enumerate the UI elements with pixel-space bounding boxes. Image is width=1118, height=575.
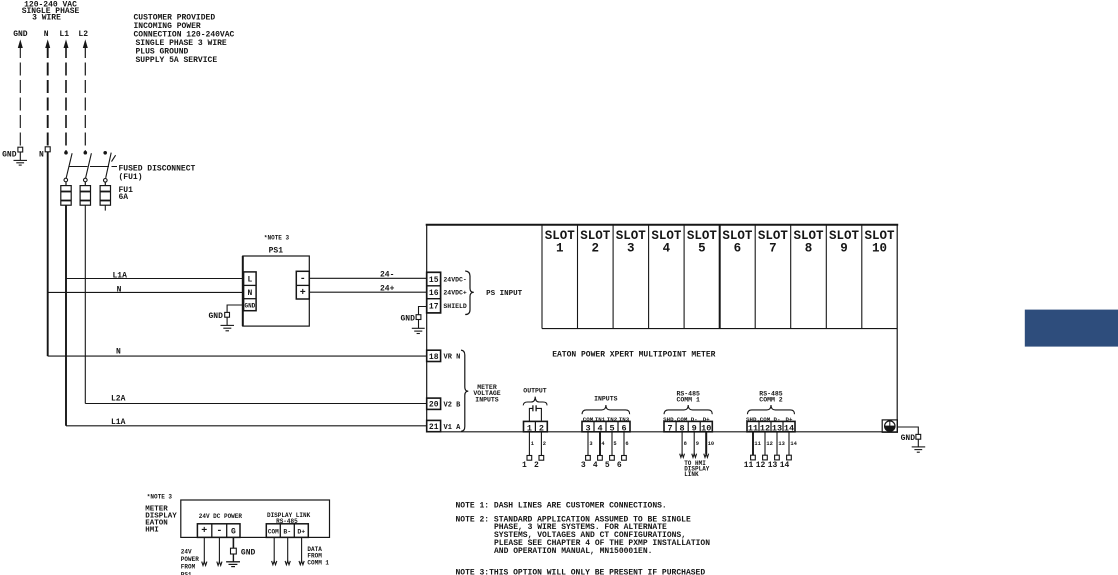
svg-text:7: 7 xyxy=(668,423,673,433)
svg-text:1: 1 xyxy=(556,242,564,256)
svg-text:NOTE 3:THIS OPTION WILL ONLY B: NOTE 3:THIS OPTION WILL ONLY BE PRESENT … xyxy=(456,569,706,575)
svg-text:PS1: PS1 xyxy=(181,571,192,575)
svg-text:3: 3 xyxy=(627,242,635,256)
svg-text:+: + xyxy=(201,526,207,537)
svg-text:3: 3 xyxy=(581,461,586,470)
svg-text:GND: GND xyxy=(13,30,28,39)
svg-text:+: + xyxy=(300,288,306,299)
svg-text:7: 7 xyxy=(769,242,777,256)
svg-text:COM: COM xyxy=(268,528,279,535)
svg-text:L: L xyxy=(247,275,252,284)
svg-text:6: 6 xyxy=(617,461,622,470)
svg-text:L2A: L2A xyxy=(111,395,126,404)
svg-text:INPUTS: INPUTS xyxy=(475,396,499,403)
svg-text:16: 16 xyxy=(429,289,439,298)
svg-text:13: 13 xyxy=(768,461,778,470)
svg-text:PS INPUT: PS INPUT xyxy=(486,290,523,298)
svg-text:L2: L2 xyxy=(78,30,88,39)
svg-text:12: 12 xyxy=(766,441,772,447)
svg-text:11: 11 xyxy=(754,441,760,447)
svg-text:N: N xyxy=(39,151,44,160)
svg-text:GND: GND xyxy=(400,314,415,323)
svg-text:GND: GND xyxy=(2,151,17,160)
svg-text:18: 18 xyxy=(429,353,439,362)
svg-text:1: 1 xyxy=(522,461,527,470)
svg-text:24VDC+: 24VDC+ xyxy=(443,290,467,297)
svg-text:NOTE 1: DASH LINES ARE CUSTOME: NOTE 1: DASH LINES ARE CUSTOMER CONNECTI… xyxy=(456,501,667,510)
svg-text:L1A: L1A xyxy=(111,418,126,427)
svg-text:N: N xyxy=(116,347,121,356)
svg-text:SUPPLY 5A SERVICE: SUPPLY 5A SERVICE xyxy=(136,56,218,65)
svg-text:B-: B- xyxy=(283,529,291,536)
svg-text:-: - xyxy=(216,526,222,537)
svg-text:GND: GND xyxy=(208,312,223,321)
svg-text:24V DC POWER: 24V DC POWER xyxy=(199,513,243,520)
svg-text:5: 5 xyxy=(605,461,610,470)
svg-text:24V: 24V xyxy=(181,549,192,556)
svg-text:(FU1): (FU1) xyxy=(119,173,143,182)
svg-text:N: N xyxy=(117,286,122,295)
svg-text:N: N xyxy=(247,289,252,298)
svg-text:24-: 24- xyxy=(380,270,394,279)
svg-text:9: 9 xyxy=(696,441,699,447)
svg-text:14: 14 xyxy=(790,441,797,447)
svg-text:8: 8 xyxy=(805,242,813,256)
svg-text:V2 B: V2 B xyxy=(444,402,462,410)
svg-text:6: 6 xyxy=(625,441,628,447)
svg-text:*NOTE 3: *NOTE 3 xyxy=(264,234,290,241)
svg-text:14: 14 xyxy=(780,461,790,470)
svg-text:9: 9 xyxy=(840,242,848,256)
svg-text:*NOTE 3: *NOTE 3 xyxy=(147,494,173,501)
svg-text:10: 10 xyxy=(872,242,887,256)
svg-text:15: 15 xyxy=(429,276,439,285)
svg-text:OUTPUT: OUTPUT xyxy=(523,387,547,394)
svg-text:6: 6 xyxy=(734,242,742,256)
svg-text:AND OPERATION MANUAL, MN150001: AND OPERATION MANUAL, MN150001EN. xyxy=(494,547,652,556)
svg-text:2: 2 xyxy=(534,461,539,470)
svg-text:2: 2 xyxy=(592,242,600,256)
svg-text:D+: D+ xyxy=(297,529,305,536)
svg-text:COMM 2: COMM 2 xyxy=(759,396,783,403)
svg-text:12: 12 xyxy=(756,461,766,470)
svg-text:17: 17 xyxy=(429,303,439,312)
svg-text:GND: GND xyxy=(901,434,916,443)
svg-text:11: 11 xyxy=(744,461,754,470)
svg-text:4: 4 xyxy=(663,242,671,256)
svg-text:L1: L1 xyxy=(59,30,69,39)
svg-text:3 WIRE: 3 WIRE xyxy=(32,13,61,22)
svg-text:N: N xyxy=(44,30,49,39)
svg-text:6A: 6A xyxy=(119,193,129,202)
svg-text:21: 21 xyxy=(429,423,439,432)
svg-text:3: 3 xyxy=(589,441,592,447)
svg-text:PS1: PS1 xyxy=(269,247,284,256)
svg-text:HMI: HMI xyxy=(145,526,159,534)
svg-text:COMM 1: COMM 1 xyxy=(676,396,700,403)
svg-text:1: 1 xyxy=(531,441,534,447)
svg-text:LINK: LINK xyxy=(684,471,699,478)
svg-text:COMM 1: COMM 1 xyxy=(307,559,329,566)
svg-text:8: 8 xyxy=(684,441,687,447)
svg-text:24+: 24+ xyxy=(380,284,395,293)
svg-text:EATON POWER XPERT MULTIPOINT M: EATON POWER XPERT MULTIPOINT METER xyxy=(552,350,715,359)
svg-text:20: 20 xyxy=(429,401,439,410)
svg-text:5: 5 xyxy=(613,441,616,447)
svg-text:G: G xyxy=(231,528,236,537)
svg-text:FROM: FROM xyxy=(181,564,196,571)
svg-text:V1 A: V1 A xyxy=(444,424,462,432)
svg-text:4: 4 xyxy=(593,461,598,470)
svg-text:24VDC-: 24VDC- xyxy=(443,276,466,283)
svg-text:SHIELD: SHIELD xyxy=(443,303,467,310)
svg-text:10: 10 xyxy=(708,441,714,447)
svg-text:-: - xyxy=(300,274,306,285)
svg-text:L1A: L1A xyxy=(113,272,128,281)
svg-text:2: 2 xyxy=(543,441,546,447)
svg-text:VR N: VR N xyxy=(444,354,461,362)
svg-text:GND: GND xyxy=(244,303,255,310)
svg-text:GND: GND xyxy=(241,548,256,557)
svg-text:INPUTS: INPUTS xyxy=(594,395,618,402)
svg-text:13: 13 xyxy=(778,441,784,447)
svg-text:POWER: POWER xyxy=(181,556,199,563)
svg-text:5: 5 xyxy=(698,242,706,256)
